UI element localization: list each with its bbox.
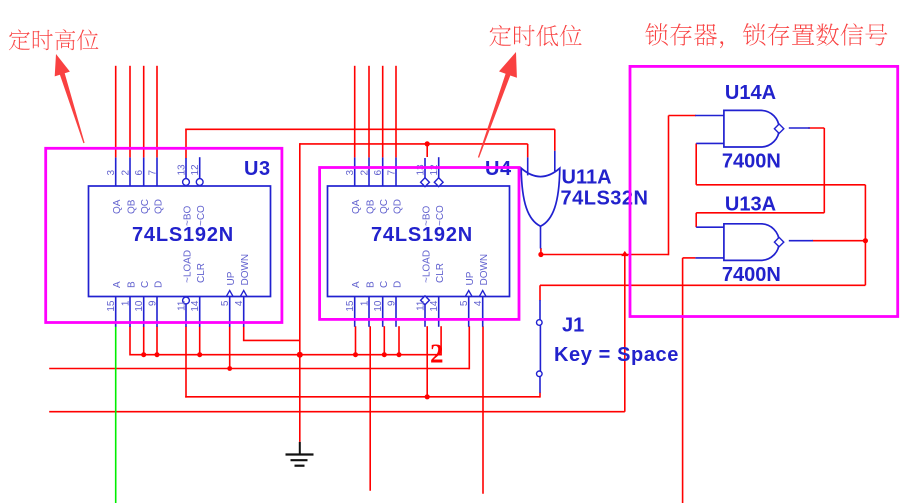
svg-text:B: B (366, 281, 377, 288)
svg-text:QC: QC (379, 199, 390, 214)
wire: vertical trunk x=300 from y=144 down to ground (299, 143, 301, 442)
OR gate U11A (74LS32N) body, inputs on top, output down (521, 168, 560, 226)
U3 pin 10 (input C) stub (134, 281, 151, 327)
U4 part label 74LS192N (371, 224, 473, 246)
U4 pin 5 (UP clock input) stub with clock caret (459, 271, 476, 327)
wire: U3 pin C down to bus A (143, 326, 145, 355)
wire: J1 bottom terminal down to bus B corner (539, 392, 541, 397)
wire: bus A y=355 joining B,C,D,CLR pins of U3 and A,C,D pins of U4 (130, 354, 441, 356)
U4 pin 6 (QC output) stub and wire (373, 66, 390, 214)
wire: U3 UP pin down to bus C (229, 326, 231, 368)
wire: U4 pin D down to bus A (398, 326, 400, 355)
U3 pin 5 (UP clock input) stub with clock caret (220, 271, 237, 327)
junction dot: U4 ~BO on y=144 net (425, 141, 430, 146)
svg-text:11: 11 (416, 300, 427, 311)
highlight box around U3 (timer high digit) (46, 148, 282, 322)
wire: U3 ~BO net up and over to OR gate right input (185, 129, 555, 158)
junction dot: U13A output column (863, 238, 868, 243)
svg-text:U14A: U14A (725, 82, 776, 104)
wire: U13A output right to column (812, 240, 865, 242)
svg-text:74LS32N: 74LS32N (561, 188, 649, 210)
junction dot: U3 pin CLR on bus A (197, 352, 202, 357)
wire: U3 ~LOAD down, bus B y=397 to key J1 (185, 326, 540, 397)
wire: U13A output column down and left to key J1 top (540, 241, 865, 301)
svg-text:3: 3 (106, 170, 117, 176)
74LS192N counter U4 body (328, 186, 510, 297)
wire: U4 ~LOAD down to bus B (426, 326, 428, 397)
OR gate U11A input stubs (blue) (528, 151, 555, 176)
svg-text:7: 7 (387, 170, 398, 176)
svg-text:14: 14 (190, 300, 201, 312)
junction dot: U3 pin D on bus A (155, 352, 160, 357)
svg-text:7: 7 (148, 170, 159, 176)
wire: U13A input2 left and long vertical down off-sheet (683, 258, 696, 503)
U4 pin 3 (QA output) stub and wire (345, 66, 362, 214)
wire: OR gate output down to junction, right to U14A input1 riser (541, 116, 696, 256)
svg-text:D: D (154, 281, 165, 288)
U13A output stub (blue) (789, 240, 813, 242)
callout arrow to U3 box (timer high) (55, 54, 85, 143)
U4 pin 10 (input C) stub (373, 281, 390, 327)
junction dot: U4 pin C on bus A (382, 352, 387, 357)
svg-text:5: 5 (220, 300, 231, 306)
svg-text:~LOAD: ~LOAD (422, 250, 433, 283)
key J1 actuator line between terminals (539, 325, 541, 371)
gate label U14A (725, 82, 776, 104)
reference designator U4 (485, 158, 512, 180)
74LS192N counter U3 body (89, 186, 271, 297)
svg-text:7400N: 7400N (722, 264, 781, 286)
svg-text:15: 15 (106, 300, 117, 312)
U3 pin 15 (input A) stub (106, 281, 123, 327)
junction dot: trunk x=300 joins bus A (y=355) (297, 352, 303, 358)
wire: U3 pin B down to bus A (129, 326, 131, 355)
svg-text:13: 13 (177, 164, 188, 176)
svg-text:B: B (127, 281, 138, 288)
svg-text:UP: UP (465, 271, 476, 285)
svg-text:9: 9 (387, 300, 398, 306)
svg-text:DOWN: DOWN (479, 254, 490, 286)
wire: U3 pin D down to bus A (156, 326, 158, 355)
NAND gate U13A (7400N) body (724, 224, 784, 261)
gate type label 7400N (722, 151, 781, 173)
svg-text:2: 2 (121, 170, 132, 176)
svg-text:A: A (112, 281, 123, 288)
gate type label 7400N (722, 264, 781, 286)
U3 pin 2 (QB output) stub and wire (121, 66, 138, 214)
svg-text:2: 2 (430, 339, 444, 369)
wire: U4 ~BO stub up to y=144 net (426, 144, 428, 157)
U4 pin 15 (input A) stub (345, 281, 362, 327)
reference designator U3 (244, 158, 271, 180)
junction dot (triangle): bus D riser joins OR output net (621, 251, 628, 256)
svg-text:2: 2 (360, 170, 371, 176)
key J1 reference label (562, 315, 584, 337)
U4 pin 9 (input D) stub (387, 281, 404, 327)
gate label U13A (725, 194, 776, 216)
wire: U14A input2 from gate down and right to U13A output column (696, 143, 865, 240)
highlight box around latch (U14A/U13A) (630, 66, 898, 316)
U14A input2 stub (blue) (696, 142, 724, 144)
U13A input2 stub (blue) (695, 257, 724, 259)
key J1 value label Key = Space (554, 344, 679, 366)
U3 pin 11 (~LOAD input) bubble and stub (177, 250, 194, 327)
svg-text:UP: UP (226, 271, 237, 285)
svg-text:74LS192N: 74LS192N (371, 224, 473, 246)
svg-text:QD: QD (154, 199, 165, 214)
svg-text:4: 4 (234, 300, 245, 306)
junction dot: U4 pin D on bus A (397, 352, 402, 357)
annotation text: timer low digit (Chinese) (489, 25, 581, 46)
svg-text:4: 4 (473, 300, 484, 306)
svg-text:9: 9 (148, 300, 159, 306)
U3 pin 4 (DOWN clock input) stub with clock caret (234, 254, 251, 327)
svg-text:12: 12 (429, 164, 440, 176)
wire: U3 pin CLR down to bus A (199, 326, 201, 355)
NAND gate U14A (7400N) body (724, 110, 784, 147)
ground symbol (286, 442, 314, 466)
U13A input1 stub (blue) (696, 226, 724, 228)
U3 pin 14 (CLR input) stub (190, 263, 207, 327)
svg-text:QA: QA (112, 199, 123, 214)
wire: bus D y=411.7 (OR output net), open left end (49, 254, 625, 412)
junction dot: U3 UP on bus C (227, 366, 232, 371)
svg-text:13: 13 (416, 164, 427, 176)
svg-text:QB: QB (127, 199, 138, 214)
svg-text:6: 6 (134, 170, 145, 176)
svg-text:1: 1 (121, 300, 132, 306)
annotation text: timer high digit (Chinese) (9, 29, 99, 50)
svg-text:~LOAD: ~LOAD (183, 250, 194, 283)
svg-text:74LS192N: 74LS192N (132, 224, 234, 246)
svg-text:7400N: 7400N (722, 151, 781, 173)
svg-text:U3: U3 (244, 158, 271, 180)
U4 pin 11 (~LOAD input) bubble and stub (416, 250, 433, 327)
U3 pin 3 (QA output) stub and wire (106, 66, 123, 214)
junction dot: U4 pin A on bus A (353, 352, 358, 357)
key J1 bottom terminal stub (539, 377, 541, 393)
svg-text:U11A: U11A (562, 167, 612, 189)
key J1 bottom terminal circle (537, 371, 543, 377)
wire: U4 pin A down to bus A (355, 326, 357, 355)
wire: U3 DOWN pin down and right to trunk (243, 326, 300, 340)
wire: U4 pin B long vertical down (open end) (369, 326, 371, 491)
callout arrow to U4 box (timer low) (478, 52, 517, 158)
svg-text:~CO: ~CO (196, 205, 207, 226)
junction dot: U3 pin C on bus A (141, 352, 146, 357)
svg-text:D: D (393, 281, 404, 288)
svg-text:QD: QD (393, 199, 404, 214)
U3 pin 12 (~CO inverted output) bubble and open stub (190, 157, 207, 226)
U4 pin 2 (QB output) stub and wire (360, 66, 377, 214)
svg-text:11: 11 (177, 300, 188, 311)
svg-text:10: 10 (134, 300, 145, 312)
U4 pin 13 (~BO inverted output) bubble and stub (416, 158, 433, 226)
wire: green net from U3 pin A down to bottom edge (115, 322, 117, 503)
svg-text:QB: QB (366, 199, 377, 214)
svg-text:~BO: ~BO (183, 205, 194, 226)
gate type label 74LS32N (561, 188, 649, 210)
wire: U4 DOWN pin long vertical down (open end) (482, 326, 484, 494)
svg-text:3: 3 (345, 170, 356, 176)
svg-text:14: 14 (429, 300, 440, 312)
U4 pin 14 (CLR input) stub (429, 263, 446, 327)
svg-text:J1: J1 (562, 315, 584, 337)
svg-text:CLR: CLR (435, 263, 446, 283)
junction dot: U4 ~LOAD on bus B (425, 394, 430, 399)
svg-text:10: 10 (373, 300, 384, 312)
svg-text:DOWN: DOWN (240, 254, 251, 286)
net number 2 label (430, 339, 444, 369)
svg-text:U13A: U13A (725, 194, 776, 216)
annotation text: latch / latch-preset signal (Chinese) (645, 23, 887, 48)
U3 pin 1 (input B) stub (121, 281, 138, 327)
svg-text:~CO: ~CO (435, 205, 446, 226)
wire: U4 pin C down to bus A (383, 326, 385, 355)
highlight box around U4 (timer low digit) (320, 168, 519, 320)
OR gate U11A output stub (blue) (540, 226, 542, 248)
junction dot: OR output corner (538, 252, 543, 257)
U4 pin 1 (input B) stub (360, 281, 377, 327)
svg-text:~BO: ~BO (422, 205, 433, 226)
svg-text:QA: QA (351, 199, 362, 214)
wire: horizontal net from vertical trunk to OR gate left input (y=144) (300, 144, 528, 158)
svg-text:6: 6 (373, 170, 384, 176)
svg-text:Key = Space: Key = Space (554, 344, 679, 366)
U14A input1 stub (blue) (695, 115, 724, 117)
svg-text:1: 1 (360, 300, 371, 306)
wire: U4 pin CLR down to right end of bus A (440, 326, 442, 355)
U3 pin 7 (QD output) stub and wire (148, 66, 165, 214)
wire: bus C y=368.5 (UP clock net), open left end (49, 368, 469, 370)
U3 pin 13 (~BO inverted output) bubble and stub (177, 158, 194, 226)
U3 pin 6 (QC output) stub and wire (134, 66, 151, 214)
svg-text:CLR: CLR (196, 263, 207, 283)
key J1 top terminal circle (537, 320, 543, 326)
key J1 switch: top terminal stub (539, 300, 541, 320)
U4 pin 7 (QD output) stub and wire (387, 66, 404, 214)
svg-text:U4: U4 (485, 158, 512, 180)
svg-text:12: 12 (190, 164, 201, 176)
svg-text:C: C (379, 281, 390, 288)
gate label U11A (562, 167, 612, 189)
U14A output stub (blue) (789, 127, 810, 129)
svg-text:5: 5 (459, 300, 470, 306)
svg-text:C: C (140, 281, 151, 288)
svg-text:A: A (351, 281, 362, 288)
wire: U14A output right, down, left, into U13A input1 (696, 128, 824, 227)
U3 pin 9 (input D) stub (148, 281, 165, 327)
svg-text:15: 15 (345, 300, 356, 312)
U4 pin 12 (~CO inverted output) bubble and open stub (429, 157, 446, 226)
wire: U4 UP pin down to right end of bus C (468, 326, 470, 369)
U3 part label 74LS192N (132, 224, 234, 246)
U4 pin 4 (DOWN clock input) stub with clock caret (473, 254, 490, 327)
svg-text:QC: QC (140, 199, 151, 214)
